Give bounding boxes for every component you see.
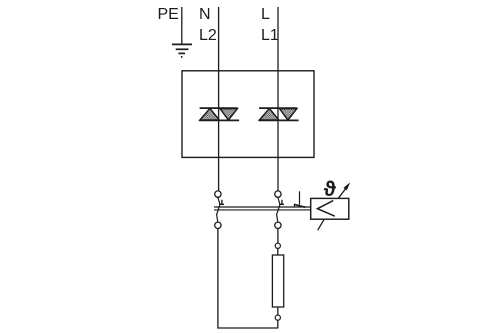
switch S1 blade [217,197,220,222]
resistor R1 heating element [272,255,283,307]
svg-text:L: L [261,6,270,23]
wire left branch down and bottom return [218,229,278,329]
wire L / L1 supply line [277,7,279,191]
thermostat box B1 [311,198,349,219]
contact terminal circle B [275,191,281,197]
thermostat terminal lead [299,191,301,204]
adjustment arrow head [343,182,350,190]
adjustment arrow shaft [338,187,346,198]
wire resistor to F [277,307,279,315]
wire PE lead [181,7,183,44]
svg-text:ϑ: ϑ [324,178,337,201]
contact terminal circle F [275,315,280,320]
contact terminal circle D [275,222,281,228]
thermostat blade tick [293,204,295,208]
triac V2 (right, on L/L1 line) [259,108,299,120]
svg-text:N: N [199,6,211,23]
switch S2 blade [277,197,280,222]
svg-text:L2: L2 [199,27,217,44]
svg-text:PE: PE [158,6,179,23]
contact terminal circle A [215,191,221,197]
thermostat blade [294,204,305,207]
wire N / L2 supply line [218,7,220,191]
contact terminal circle E [275,243,280,248]
switch S2 hook [279,200,284,205]
thermostat chevron contact [318,201,335,217]
ground PE earth symbol [172,44,192,57]
switch S1 hook [219,200,224,205]
controller box U1 [182,71,314,158]
thermostat actuator line [318,220,324,231]
contact terminal circle C [215,222,221,228]
svg-text:L1: L1 [261,27,279,44]
wire D to E [277,229,279,244]
mechanical coupling double line [214,207,311,210]
wire E to resistor [277,248,279,255]
triac V1 (left, on N/L2 line) [199,108,239,120]
wire F to bottom return [277,320,279,328]
